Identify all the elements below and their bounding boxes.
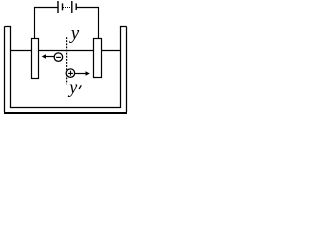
svg-text:y: y xyxy=(67,77,77,97)
svg-text:y: y xyxy=(69,23,80,44)
